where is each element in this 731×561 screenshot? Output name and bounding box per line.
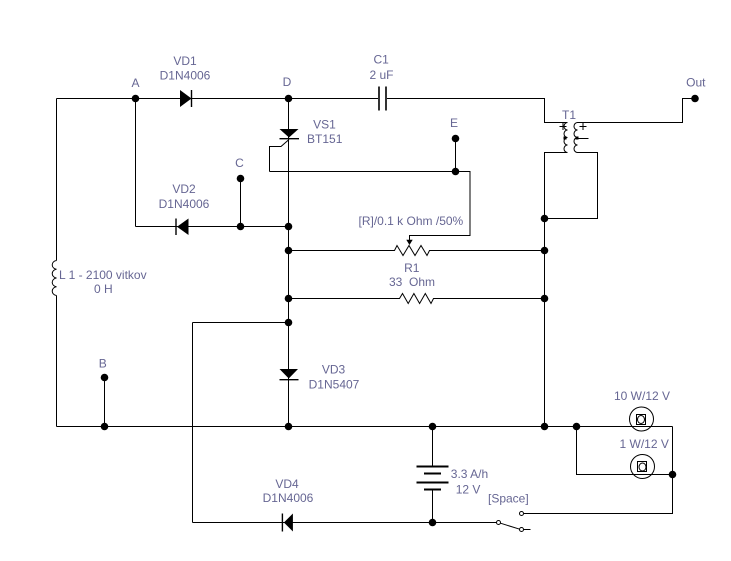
svg-text:D1N4006: D1N4006: [160, 69, 211, 83]
svg-text:33 Ohm: 33 Ohm: [389, 275, 435, 289]
svg-text:3.3 A/h: 3.3 A/h: [451, 467, 488, 481]
svg-text:[R]/0.1 k Ohm /50%: [R]/0.1 k Ohm /50%: [359, 214, 464, 228]
svg-text:E: E: [450, 116, 458, 130]
svg-text:D: D: [283, 75, 292, 89]
svg-text:A: A: [131, 76, 139, 90]
svg-text:0 H: 0 H: [94, 282, 113, 296]
svg-text:VD2: VD2: [172, 182, 196, 196]
svg-text:B: B: [99, 357, 107, 371]
svg-text:Out: Out: [686, 76, 706, 90]
svg-text:T1: T1: [562, 108, 576, 122]
svg-text:C1: C1: [374, 53, 390, 67]
svg-text:VS1: VS1: [313, 118, 336, 132]
svg-text:[Space]: [Space]: [488, 492, 529, 506]
svg-text:VD3: VD3: [322, 363, 346, 377]
svg-text:12 V: 12 V: [456, 483, 481, 497]
svg-text:C: C: [235, 156, 244, 170]
svg-text:D1N4006: D1N4006: [159, 197, 210, 211]
svg-text:R1: R1: [404, 261, 420, 275]
svg-text:L 1 - 2100 vitkov: L 1 - 2100 vitkov: [59, 268, 147, 282]
svg-text:D1N4006: D1N4006: [263, 491, 314, 505]
svg-text:VD1: VD1: [173, 54, 197, 68]
svg-text:VD4: VD4: [275, 477, 299, 491]
svg-text:BT151: BT151: [307, 132, 343, 146]
svg-text:10 W/12 V: 10 W/12 V: [614, 389, 670, 403]
svg-text:1 W/12 V: 1 W/12 V: [620, 437, 669, 451]
svg-text:2 uF: 2 uF: [369, 68, 393, 82]
svg-text:D1N5407: D1N5407: [309, 378, 360, 392]
